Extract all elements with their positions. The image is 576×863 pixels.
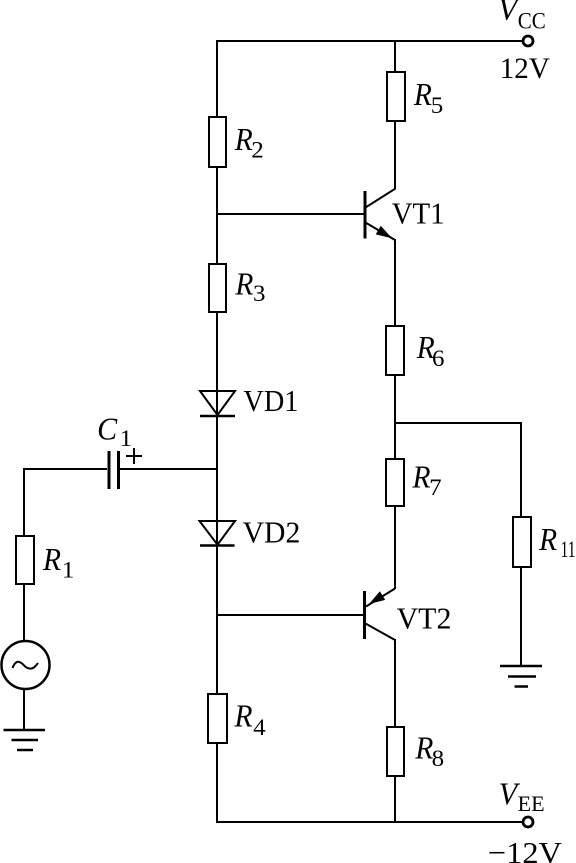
svg-text:R: R xyxy=(42,541,61,577)
wire left branch vertical xyxy=(216,40,218,823)
diode VD1 xyxy=(200,383,298,418)
svg-text:11: 11 xyxy=(561,537,576,562)
svg-text:−12V: −12V xyxy=(488,835,563,863)
wire C1 right xyxy=(120,468,217,470)
wire right branch middle xyxy=(394,239,396,589)
svg-text:3: 3 xyxy=(253,281,266,306)
wire R11 branch vertical xyxy=(520,422,522,666)
wire bottom rail xyxy=(216,821,523,823)
resistor R8 xyxy=(387,727,444,776)
resistor R6 xyxy=(386,326,445,375)
wire VT2 base xyxy=(216,614,364,616)
svg-text:R: R xyxy=(234,698,253,734)
svg-text:R: R xyxy=(538,521,557,557)
transistor VT1 xyxy=(365,189,445,241)
svg-text:7: 7 xyxy=(429,475,442,500)
svg-text:8: 8 xyxy=(432,746,445,771)
plus polarity mark xyxy=(126,448,142,464)
wire VT1 base xyxy=(216,213,364,215)
wire input branch vertical xyxy=(23,468,25,730)
terminal VCC xyxy=(523,36,533,46)
svg-text:VD1: VD1 xyxy=(243,383,298,418)
svg-text:VT2: VT2 xyxy=(397,601,452,636)
svg-text:EE: EE xyxy=(518,791,545,816)
label VEE xyxy=(499,776,545,817)
resistor R7 xyxy=(386,459,442,506)
svg-text:R: R xyxy=(234,265,253,301)
resistor R2 xyxy=(209,117,264,167)
diode VD2 xyxy=(200,514,301,549)
wire right branch lower xyxy=(394,639,396,822)
svg-text:CC: CC xyxy=(518,9,546,34)
resistor R4 xyxy=(208,694,266,743)
label VCC xyxy=(498,0,546,34)
svg-text:R: R xyxy=(413,76,432,112)
svg-text:1: 1 xyxy=(62,558,75,583)
svg-text:1: 1 xyxy=(120,426,133,451)
svg-text:4: 4 xyxy=(253,715,266,740)
ground (R11) xyxy=(500,666,542,687)
resistor R1 xyxy=(16,536,74,584)
resistor R3 xyxy=(209,264,266,312)
svg-text:12V: 12V xyxy=(500,52,550,85)
svg-text:VT1: VT1 xyxy=(392,196,445,231)
transistor VT2 xyxy=(365,589,452,641)
wire output node horizontal xyxy=(395,422,521,424)
ground (input) xyxy=(4,730,46,750)
wire C1 left xyxy=(24,468,107,470)
svg-text:5: 5 xyxy=(431,93,444,118)
svg-text:6: 6 xyxy=(432,346,445,371)
svg-text:VD2: VD2 xyxy=(243,514,301,549)
resistor R11 xyxy=(513,517,576,567)
svg-text:2: 2 xyxy=(251,138,263,163)
capacitor C1 xyxy=(97,410,132,489)
wire right branch upper xyxy=(394,40,396,189)
svg-text:C: C xyxy=(97,410,118,446)
wire top rail xyxy=(216,40,523,42)
svg-text:R: R xyxy=(412,459,431,495)
terminal VEE xyxy=(523,817,533,827)
resistor R5 xyxy=(387,72,443,121)
source G xyxy=(2,641,50,689)
